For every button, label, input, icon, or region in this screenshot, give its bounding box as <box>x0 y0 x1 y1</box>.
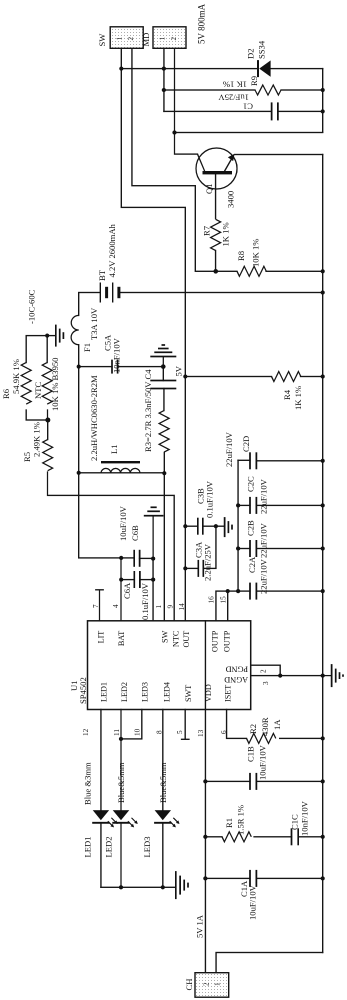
wire: NTC network top to ground <box>26 336 56 363</box>
resistor R7 1K <box>202 219 231 250</box>
svg-text:11: 11 <box>113 729 121 736</box>
U1 bottom pin names vertical <box>224 665 248 684</box>
svg-text:C6A: C6A <box>122 582 132 599</box>
transistor Q1 3400 <box>196 148 237 208</box>
capacitor C1A 10uF/10V <box>239 870 258 920</box>
wire: LED cathode line to ground <box>101 886 176 888</box>
wire: battery minus through fuse to node A <box>79 293 100 367</box>
svg-text:430R: 430R <box>260 717 270 736</box>
svg-text:C2C: C2C <box>246 476 256 492</box>
wire: AGND pin to bus <box>251 675 323 677</box>
svg-text:1K 1%: 1K 1% <box>221 222 231 246</box>
wire: R5 to NTC pin <box>48 472 175 621</box>
wire: R1 C1C branch <box>205 836 322 838</box>
svg-text:12: 12 <box>82 728 90 736</box>
svg-text:1K 1%: 1K 1% <box>293 386 303 410</box>
capacitor C5A 10nF/10V <box>103 334 122 374</box>
wire: R9 branch <box>164 89 323 91</box>
net label 5V 1A <box>195 914 205 938</box>
LED LED2 blue <box>104 762 138 857</box>
svg-text:10nF/10V: 10nF/10V <box>300 800 310 836</box>
svg-text:SWT: SWT <box>184 685 193 702</box>
svg-text:R5: R5 <box>22 452 32 462</box>
svg-text:R4: R4 <box>282 389 292 400</box>
svg-text:C2D: C2D <box>241 436 251 452</box>
svg-text:L1: L1 <box>109 444 119 454</box>
resistor R5 2.49K <box>22 422 53 471</box>
LED LED3 blue <box>142 762 180 857</box>
svg-text:1: 1 <box>116 37 124 41</box>
wire: MD pin2 drop to bus <box>175 132 323 134</box>
svg-text:PGND: PGND <box>226 665 248 674</box>
svg-text:C1C: C1C <box>290 814 300 830</box>
resistor R1 1.5R <box>222 805 251 842</box>
resistor R8 10K <box>236 239 266 277</box>
svg-text:CH: CH <box>184 979 194 991</box>
svg-text:Blue&5mm: Blue&5mm <box>158 762 168 803</box>
resistor R4 1K <box>272 372 304 411</box>
wire: battery minus rail to C6B and BAT <box>79 367 153 559</box>
resistor R3 2.7R with C4 label row <box>143 369 169 452</box>
wire: D2 branch <box>121 68 322 70</box>
svg-text:OUTP: OUTP <box>211 630 220 652</box>
wire: VDD 5V output line to CH <box>204 621 206 973</box>
svg-text:2.2uH/WHC0630-2R2M: 2.2uH/WHC0630-2R2M <box>89 375 99 461</box>
resistor R9 1K <box>223 76 281 95</box>
wire: C6A branch and pin1 line <box>121 559 153 621</box>
capacitor C6B 10uF/10V <box>118 505 140 566</box>
wire: C3B branch from 5V to ground <box>185 525 224 527</box>
connector MD <box>141 27 186 49</box>
svg-text:SW: SW <box>97 33 107 47</box>
svg-text:Blue&5mm: Blue&5mm <box>116 762 126 803</box>
capacitor C2C 22uF/10V <box>246 476 269 514</box>
svg-text:22uF/10V: 22uF/10V <box>224 431 234 467</box>
svg-text:5V 800mA: 5V 800mA <box>197 3 207 44</box>
svg-text:R2: R2 <box>248 724 258 734</box>
wire: C1B branch <box>205 780 322 782</box>
svg-text:0.1uF/10V: 0.1uF/10V <box>140 582 150 620</box>
svg-text:R1: R1 <box>224 818 234 828</box>
wire: LED4 pin line <box>162 710 164 888</box>
svg-text:1: 1 <box>214 982 222 986</box>
wire: R4 branch from 5V to bus <box>185 376 322 378</box>
wire: battery plus to bus <box>120 292 323 294</box>
ground G3 pin1 node <box>144 507 164 558</box>
IC U1 SP4502 box <box>69 621 251 710</box>
svg-text:SP4502: SP4502 <box>78 677 88 704</box>
svg-text:5V 1A: 5V 1A <box>195 914 205 938</box>
capacitor C2B 22uF/10V <box>246 520 269 558</box>
wire: C2A branch <box>238 590 323 592</box>
resistor R2 430R <box>247 717 283 743</box>
svg-text:10uF/10V: 10uF/10V <box>248 884 258 920</box>
connector SW <box>97 27 143 49</box>
svg-text:22uF/10V: 22uF/10V <box>259 558 269 594</box>
wire: PGND pin jog to AGND <box>251 665 281 675</box>
wire: ground/output bus bottom rail <box>322 69 324 953</box>
wire: OUTP pins to C2 rail <box>216 591 238 621</box>
svg-text:LED4: LED4 <box>163 682 172 702</box>
svg-text:LED3: LED3 <box>141 682 150 702</box>
svg-text:2: 2 <box>170 37 178 41</box>
svg-text:2.2uF/25V: 2.2uF/25V <box>203 543 213 581</box>
svg-text:0.1uF/10V: 0.1uF/10V <box>205 480 215 518</box>
wire: bus to CH pin1 <box>216 953 323 973</box>
svg-text:NTC: NTC <box>172 630 181 647</box>
thermistor NTC 10K B3950 <box>33 358 60 411</box>
svg-text:LED2: LED2 <box>104 836 114 857</box>
svg-text:T3A 10V: T3A 10V <box>89 307 99 340</box>
net label 5V 800mA <box>197 3 207 44</box>
capacitor C6A 0.1uF/10V <box>122 571 150 620</box>
svg-text:D2: D2 <box>246 48 256 59</box>
svg-text:4: 4 <box>112 604 120 608</box>
svg-text:OUT: OUT <box>182 631 191 648</box>
wire: BAT pin line <box>120 558 122 620</box>
svg-text:10K 1% B3950: 10K 1% B3950 <box>50 358 60 411</box>
wire: Q1 emitter to bus <box>235 154 323 156</box>
temperature label <box>27 289 37 324</box>
svg-text:LED1: LED1 <box>83 836 93 857</box>
wire: LED1 pin line <box>100 710 102 888</box>
svg-text:1: 1 <box>159 37 167 41</box>
wire: C3A branch <box>185 526 216 568</box>
svg-text:LIT: LIT <box>97 631 106 644</box>
wire: C4 R3 snubber chain to SW node <box>163 367 164 621</box>
battery BT 4.2V 2600mAh <box>97 223 119 302</box>
wire: MD pin1 line <box>163 48 165 111</box>
svg-text:5: 5 <box>176 730 184 734</box>
capacitor C1B 10uF/10V <box>246 744 268 790</box>
ground G6 LED cathodes <box>176 871 188 899</box>
svg-text:R6: R6 <box>1 388 11 399</box>
svg-text:C6B: C6B <box>130 525 140 541</box>
svg-text:BAT: BAT <box>117 631 126 646</box>
wire: LIT stub <box>96 590 103 621</box>
svg-text:R3=2.7R 3.3nF/50V C4: R3=2.7R 3.3nF/50V C4 <box>143 369 153 452</box>
svg-text:ISET: ISET <box>224 685 233 702</box>
svg-text:22uF/10V: 22uF/10V <box>259 478 269 514</box>
ground G4 C3B <box>225 517 232 537</box>
svg-text:SS34: SS34 <box>257 40 267 59</box>
svg-text:C2B: C2B <box>246 520 256 536</box>
svg-text:10: 10 <box>134 728 142 736</box>
wire: R8 branch base divider <box>216 270 323 272</box>
wire: C2B branch <box>238 548 323 550</box>
fuse F1 T3A <box>71 307 99 352</box>
wire: C2 left rail <box>237 460 239 591</box>
svg-text:SW: SW <box>161 630 170 643</box>
svg-text:14: 14 <box>178 603 186 611</box>
svg-text:NTC: NTC <box>33 382 43 399</box>
wire: node A down through C5A to C4 node <box>79 366 164 368</box>
svg-text:Q1: Q1 <box>204 183 214 194</box>
wire: SWT stub <box>182 710 189 740</box>
svg-text:1K 1%: 1K 1% <box>223 80 247 90</box>
svg-text:VDD: VDD <box>204 684 213 702</box>
svg-text:9: 9 <box>167 605 175 609</box>
svg-text:OUTP: OUTP <box>223 630 232 652</box>
U1 bottom pin numbers <box>260 669 271 685</box>
svg-text:1.5R 1%: 1.5R 1% <box>236 805 246 835</box>
svg-text:AGND: AGND <box>224 675 248 684</box>
U1 right side pin names <box>97 630 232 652</box>
svg-text:10nF/10V: 10nF/10V <box>112 337 122 373</box>
U1 left pin numbers <box>82 728 228 737</box>
svg-text:10K 1%: 10K 1% <box>251 239 261 267</box>
svg-text:7: 7 <box>92 604 100 608</box>
svg-text:-10C-60C: -10C-60C <box>27 289 37 324</box>
svg-text:16: 16 <box>208 596 216 604</box>
wire: LED3 pin jog to LED2 <box>121 710 142 739</box>
svg-text:3400: 3400 <box>226 191 236 208</box>
svg-text:22uF/10V: 22uF/10V <box>259 522 269 558</box>
capacitor C2A 22uF/10V <box>247 556 269 600</box>
resistor R6 54.9K <box>1 359 31 404</box>
svg-text:5V: 5V <box>174 365 184 376</box>
svg-text:2: 2 <box>203 982 211 986</box>
svg-text:2: 2 <box>260 669 268 673</box>
wire: C2C branch <box>238 504 323 506</box>
wire: C1 branch <box>164 110 323 112</box>
svg-text:13: 13 <box>197 729 205 737</box>
svg-text:MD: MD <box>141 33 151 47</box>
capacitor C3B 0.1uF/10V <box>196 480 215 534</box>
svg-text:F1: F1 <box>82 343 92 352</box>
ground G1 NTC top <box>56 325 64 347</box>
wire: R7 leads <box>215 175 217 272</box>
svg-text:54.9K 1%: 54.9K 1% <box>11 359 21 394</box>
U1 left side pin names <box>100 682 233 702</box>
svg-text:1uF/25V: 1uF/25V <box>218 93 249 103</box>
wire: SW pin1 to OUT pin 5V sense line <box>121 48 185 621</box>
wire: C2D branch <box>238 459 323 462</box>
svg-text:2: 2 <box>127 37 135 41</box>
wire: C1A branch <box>205 877 322 879</box>
svg-text:3: 3 <box>262 681 270 685</box>
svg-text:1: 1 <box>155 605 163 609</box>
LED LED1 blue <box>83 762 118 858</box>
svg-text:LED3: LED3 <box>142 836 152 857</box>
capacitor C2D 22uF/10V <box>224 431 256 469</box>
diode D2 SS34 <box>246 40 271 77</box>
wire: MD pin2 to Q1 collector <box>175 48 198 154</box>
svg-text:BT: BT <box>97 269 107 281</box>
capacitor C4 3.3nF/50V <box>150 381 176 389</box>
svg-text:1A: 1A <box>272 719 282 730</box>
wire: L1 switch node <box>79 472 165 474</box>
svg-text:Blue &3mm: Blue &3mm <box>83 762 93 805</box>
svg-text:R9: R9 <box>249 76 259 86</box>
svg-text:LED1: LED1 <box>100 682 109 702</box>
svg-text:2.49K 1%: 2.49K 1% <box>32 422 42 457</box>
svg-text:R7: R7 <box>202 225 212 236</box>
inductor L1 2.2uH <box>89 375 140 473</box>
svg-text:10uF/10V: 10uF/10V <box>258 744 268 780</box>
svg-text:C1B: C1B <box>246 746 256 762</box>
wire: ISET to R2 <box>227 710 323 739</box>
wire: SW pin2 to Q1 base node <box>132 48 216 271</box>
svg-text:8: 8 <box>156 730 164 734</box>
wire: R6 NTC bottom junction to R5 <box>26 410 48 440</box>
capacitor C3A 2.2nF/25V <box>194 541 213 581</box>
ground G5 AGND <box>323 664 343 687</box>
svg-text:C2A: C2A <box>247 556 257 573</box>
capacitor C1C 10nF/10V <box>290 800 310 845</box>
svg-text:15: 15 <box>220 596 228 604</box>
connector CH <box>184 973 229 998</box>
svg-text:R8: R8 <box>236 251 246 261</box>
svg-text:LED2: LED2 <box>120 682 129 702</box>
svg-text:10uF/10V: 10uF/10V <box>118 505 128 541</box>
svg-text:6: 6 <box>220 730 228 734</box>
ground G2 node A <box>150 345 176 367</box>
capacitor C1 1uF/25V <box>218 93 278 121</box>
svg-text:4.2V 2600mAh: 4.2V 2600mAh <box>107 223 117 277</box>
net label 5V <box>174 365 184 376</box>
U1 right pin numbers <box>92 596 228 611</box>
wire: LED2 pin line <box>120 710 122 888</box>
